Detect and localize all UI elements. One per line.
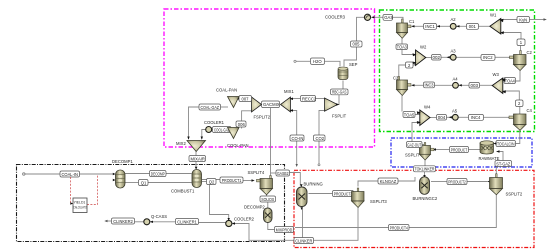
- wire Q-CASS to CLINKER2: [135, 221, 144, 223]
- svg-text:COOLER3: COOLER3: [325, 15, 346, 20]
- wire SSPLIT3 solids to CLINKER: [314, 208, 359, 241]
- hierarchy boundary: green cyclone preheater section: [380, 10, 535, 132]
- svg-text:COOL-PAN: COOL-PAN: [227, 143, 249, 148]
- wire DECOMP2 to MIXPROD: [268, 223, 275, 230]
- wire 004 to A5: [447, 116, 453, 118]
- stream label 001: [467, 24, 479, 30]
- svg-text:CO-IN: CO-IN: [292, 136, 304, 141]
- stream label INC2: [481, 55, 495, 61]
- reactor COMBUST1: [192, 167, 202, 188]
- svg-text:SOLIDS: SOLIDS: [261, 197, 274, 202]
- cyclone SSPLIT3: [352, 188, 365, 208]
- wire Q2 to COOLER2: [210, 185, 229, 220]
- feed port: [23, 173, 25, 175]
- stream label MIXPROD: [275, 227, 294, 233]
- cyclone SSPLIT calciner: [420, 143, 437, 161]
- svg-text:SSPLIT2: SSPLIT2: [506, 192, 523, 197]
- wire TOCALCIN to RAWMATE: [495, 143, 496, 145]
- svg-text:H2O: H2O: [313, 59, 322, 64]
- stream label KyN: [517, 17, 547, 23]
- svg-text:KyN: KyN: [519, 17, 527, 22]
- wire COAL-GAZ to MIX2: [189, 107, 200, 139]
- hopper COOL-PAN: [228, 128, 240, 139]
- wire 006 to COOL-PAN: [241, 127, 243, 129]
- svg-text:PRODUCT2: PRODUCT2: [448, 179, 466, 184]
- wire KLNGAZ to BURNING2: [398, 177, 415, 181]
- heater Q-CASS: [144, 219, 153, 225]
- compressor W4: [417, 110, 430, 126]
- svg-text:Q-CASS: Q-CASS: [151, 214, 167, 219]
- wire GASB2 to BURNING: [290, 173, 301, 186]
- svg-text:COOLER2: COOLER2: [234, 217, 255, 222]
- wire PRODUCT to SSPLIT cyclone: [435, 149, 450, 151]
- svg-text:INC2: INC2: [483, 55, 493, 60]
- wire W4 to 004: [430, 117, 437, 119]
- wire 001 to A2: [456, 25, 467, 27]
- svg-text:003: 003: [471, 83, 479, 88]
- wire funnel COAL-PAN to COAL-GAZ: [221, 106, 229, 108]
- svg-text:002: 002: [433, 55, 441, 60]
- svg-text:W2: W2: [420, 45, 427, 50]
- stream label 006: [236, 121, 246, 127]
- wire CO-IN to MIX1: [290, 111, 297, 136]
- stream label CLINKER2: [104, 218, 134, 224]
- svg-text:Q2: Q2: [209, 179, 215, 184]
- stream label 1: [517, 39, 525, 46]
- wire BURNING2 to PRODUCT2: [431, 181, 447, 183]
- stream label TOCALCIN: [496, 141, 516, 147]
- svg-text:MIX2: MIX2: [176, 141, 186, 146]
- wire SSPLIT2 solids to PRODUCT4: [405, 195, 497, 228]
- svg-text:BURNING: BURNING: [304, 182, 323, 187]
- svg-text:DECOMP1: DECOMP1: [112, 159, 133, 164]
- svg-text:GAS: GAS: [384, 15, 393, 20]
- wire RECC2 to MIX1: [292, 98, 301, 100]
- svg-text:CLINKER1: CLINKER1: [177, 219, 197, 224]
- wire W1 to 001: [479, 25, 490, 27]
- svg-text:ST-GAZ: ST-GAZ: [496, 161, 510, 166]
- cyclone C1: [397, 19, 415, 38]
- svg-text:004: 004: [438, 115, 446, 120]
- compressor W3: [492, 78, 506, 94]
- cyclone SSPLIT4: [257, 176, 273, 195]
- wire MIXAIR to COMBUST1: [195, 162, 197, 169]
- wire CO2 outlet: [318, 141, 320, 164]
- wire C2 to TOA4: [516, 70, 521, 81]
- svg-text:C4: C4: [527, 108, 533, 113]
- wire COMBUST1 to Q2: [202, 181, 207, 183]
- stream label MIXAIR: [189, 156, 206, 162]
- hierarchy boundary: magenta preheat/coal section: [164, 9, 375, 147]
- stream label SOLIDS: [260, 196, 276, 202]
- stream label GASB2: [276, 170, 290, 176]
- wire KyN outlet: [530, 19, 545, 21]
- wire H2O to SEP: [325, 61, 341, 66]
- stream label PRODUCT: [450, 147, 469, 153]
- svg-text:MIX1: MIX1: [284, 89, 294, 94]
- reactor DECOMP1: [113, 170, 125, 188]
- svg-text:TOKLINKER: TOKLINKER: [415, 167, 435, 172]
- stream label TOKLINKR: [414, 166, 436, 178]
- stream label TOA4: [504, 78, 516, 84]
- wire 005 to SEP: [344, 47, 357, 67]
- svg-text:COAL-GAZ: COAL-GAZ: [201, 105, 220, 110]
- wire FSPLIT2 to 006: [242, 111, 252, 121]
- svg-text:INC4: INC4: [471, 115, 481, 120]
- svg-text:W3: W3: [493, 72, 500, 77]
- svg-text:GASB2: GASB2: [277, 171, 289, 176]
- stream label INC3: [424, 82, 435, 88]
- svg-text:TOA3: TOA3: [397, 45, 408, 50]
- svg-text:INC3: INC3: [425, 83, 435, 88]
- hierarchy boundary: blue calciner section: [391, 138, 532, 167]
- svg-text:DECOMP2: DECOMP2: [244, 205, 265, 210]
- svg-text:CLINKER2: CLINKER2: [113, 219, 133, 224]
- wire cyclone to GAZ-OUT: [422, 145, 425, 146]
- wire 1 to W1: [503, 33, 522, 40]
- svg-text:TOA5: TOA5: [404, 112, 415, 117]
- stream label 003: [469, 83, 480, 89]
- wire A2 to INC1: [437, 25, 451, 27]
- svg-text:DECOMP: DECOMP: [151, 171, 165, 176]
- svg-text:SSPLIT3: SSPLIT3: [370, 199, 387, 204]
- heater A5: [449, 114, 458, 120]
- svg-text:INC1: INC1: [425, 24, 435, 29]
- stream label KLNGAZ: [378, 178, 398, 184]
- wire BURNING to PRODUCT3: [309, 193, 333, 195]
- wire FSPLIT to CO2: [319, 111, 325, 136]
- wire PRODUCT1 to SSPLIT4: [243, 180, 253, 182]
- stream label 004: [437, 115, 447, 121]
- wire C2 to 1: [520, 46, 522, 55]
- mixer block GACMIX: [262, 101, 280, 108]
- wire PRODUCT2 to SSPLIT2: [467, 181, 488, 183]
- wire 003 to A4: [458, 84, 469, 86]
- heater A3: [447, 54, 457, 60]
- calculator YIELD1: [70, 175, 97, 213]
- svg-text:YIELD1: YIELD1: [74, 201, 86, 205]
- wire SEP to RBC-GAS: [342, 81, 344, 90]
- heater COOLER2: [226, 218, 235, 227]
- flash drum SEP: [338, 67, 348, 80]
- wire COMBUST1 to PRODUCT1: [202, 179, 220, 181]
- stream label RECC2: [301, 96, 317, 102]
- svg-text:KLNGAZ: KLNGAZ: [380, 179, 397, 184]
- wire BURNING bottom to CLINKER: [302, 209, 304, 238]
- svg-text:COAL-IN: COAL-IN: [62, 172, 79, 177]
- reactor DECOMP2: [264, 208, 273, 223]
- wire COOLER1 to MIX2: [202, 130, 206, 140]
- splitter FSPLIT2: [252, 97, 262, 112]
- mixer hopper MIX2: [187, 137, 206, 152]
- svg-text:COMBUST1: COMBUST1: [171, 189, 195, 194]
- wire INC4 to C4: [484, 116, 510, 118]
- wire C1 to TOA3: [401, 38, 403, 44]
- wire H2O inlet: [296, 60, 311, 62]
- stream label GAZ-OUT: [407, 142, 423, 148]
- stream label INC4: [469, 115, 484, 121]
- heater A2: [437, 23, 460, 29]
- svg-text:SEP: SEP: [349, 62, 358, 67]
- svg-text:COOLER1: COOLER1: [204, 120, 225, 125]
- wire COOLER2 to CLINKER1: [199, 222, 226, 224]
- wire SSPLIT3 gas to KLNGAZ: [358, 181, 378, 187]
- stream label 2: [406, 62, 414, 68]
- svg-text:001: 001: [469, 24, 477, 29]
- wire TOA3 to W2: [402, 50, 415, 55]
- wire 2 to C4 top: [519, 107, 521, 115]
- cyclone C4: [508, 114, 526, 130]
- stream label CO2: [314, 135, 326, 166]
- svg-text:A4: A4: [453, 77, 459, 82]
- wire A3 to INC2: [456, 56, 481, 58]
- svg-text:SSPLIT4: SSPLIT4: [248, 170, 265, 175]
- stream label DECOMP: [150, 171, 167, 177]
- svg-text:SSPLIT: SSPLIT: [405, 153, 420, 158]
- svg-text:006: 006: [238, 122, 246, 127]
- stream label PRODUCT1: [220, 177, 255, 183]
- splitter FSPLIT: [325, 98, 340, 111]
- stream label PRODUCT2: [447, 179, 467, 185]
- wire TOA4 to W3: [503, 80, 506, 82]
- wire C4 to 2: [503, 91, 519, 100]
- stream label H2O: [294, 58, 325, 64]
- svg-text:CLINKER: CLINKER: [295, 238, 312, 243]
- svg-text:005: 005: [353, 42, 361, 47]
- wire MIX2 to MIXAIR: [195, 152, 197, 156]
- wire C3 to TOA5: [401, 96, 403, 112]
- svg-text:RECC2: RECC2: [302, 96, 317, 101]
- svg-text:GAZ-OUT: GAZ-OUT: [407, 142, 421, 147]
- stream label CLINKER1: [176, 219, 199, 225]
- cyclone C2: [509, 51, 527, 71]
- wire CLINKER2 outlet: [107, 220, 112, 222]
- svg-text:A3: A3: [451, 49, 457, 54]
- svg-text:C1: C1: [409, 19, 415, 24]
- wire INC1 to C1: [412, 25, 424, 27]
- stream label CLINKER: [294, 238, 314, 244]
- svg-text:FSPLIT: FSPLIT: [332, 114, 347, 119]
- stream label COAL-IN: [60, 171, 80, 177]
- svg-text:W4: W4: [424, 105, 431, 110]
- compressor W2: [413, 50, 426, 66]
- wire SSPLIT4 gas to GACMIX: [270, 108, 272, 178]
- wire RBC-GAS to FSPLIT: [338, 95, 341, 105]
- wire DECOMP to COMBUST1: [166, 173, 192, 175]
- wire TOA5 to W4: [409, 113, 420, 118]
- cyclone C3: [397, 77, 415, 96]
- wire W2 to 002: [426, 57, 432, 59]
- wire COAL-IN to DECOMP1: [80, 173, 115, 175]
- stream label COAL-GAZ: [199, 104, 221, 110]
- wire cyclone to TOKLINKR: [424, 160, 426, 166]
- svg-text:Q1: Q1: [141, 180, 147, 185]
- svg-text:PRODUCT: PRODUCT: [451, 147, 468, 152]
- wire ST-GAZ to RAWMATE: [497, 152, 504, 161]
- wire PRODUCT3 to SSPLIT3: [350, 193, 353, 195]
- svg-text:RBC-GAS: RBC-GAS: [332, 90, 347, 95]
- stream label 005: [351, 41, 363, 47]
- wire feed to COAL-IN: [25, 173, 60, 175]
- stream label GAS: [383, 15, 393, 21]
- cyclone SSPLIT2: [487, 174, 502, 195]
- stream label PRODUCT3: [333, 191, 356, 197]
- reactor BURNING kiln: [297, 184, 308, 210]
- svg-text:MIXAIR: MIXAIR: [191, 156, 205, 161]
- stream label COOL-GAZ: [213, 127, 232, 133]
- wire C1 gas to GAS label: [393, 17, 404, 22]
- mixer MIX1: [281, 97, 294, 112]
- compressor W1: [490, 19, 504, 35]
- wire DECOMP1 to Q1: [125, 182, 139, 184]
- stream label TOA3: [396, 44, 408, 50]
- svg-text:TOCALCIN: TOCALCIN: [497, 141, 515, 146]
- wire PRODUCT4 to MIXPROD: [295, 227, 389, 229]
- wire GAZ-OUT to W4: [412, 123, 419, 142]
- svg-text:COAL-PAN: COAL-PAN: [216, 88, 237, 93]
- stream label TOA5: [403, 112, 415, 118]
- stream label 002: [432, 55, 442, 61]
- svg-text:W1: W1: [490, 13, 497, 18]
- wire TOKLINKR to BURNING2: [424, 172, 426, 176]
- wire W3 to 003: [480, 84, 493, 86]
- svg-text:BURNINGC2: BURNINGC2: [413, 196, 438, 201]
- wire C3 to 2: [399, 65, 406, 80]
- svg-text:A2: A2: [451, 17, 457, 22]
- hierarchy boundary: red kiln section: [294, 170, 534, 247]
- svg-text:007: 007: [242, 96, 250, 101]
- stream label ST-GAZ: [495, 161, 512, 167]
- stream label INC1: [424, 24, 437, 30]
- reactor RAWMATE: [480, 141, 500, 154]
- heater COOLER1: [206, 127, 215, 133]
- wire C4 to TOCALCIN: [516, 130, 520, 144]
- wire FSPLIT to RECC2: [316, 98, 325, 100]
- svg-text:PRODUCT4: PRODUCT4: [390, 225, 409, 230]
- stream label RBC-GAS: [331, 89, 349, 95]
- stream label 007: [236, 96, 252, 102]
- svg-text:FSPLIT2: FSPLIT2: [254, 115, 271, 120]
- heater COOLER3: [364, 14, 374, 20]
- svg-text:PRODUCT3: PRODUCT3: [334, 191, 353, 196]
- wire GAS to COOLER3: [373, 16, 384, 18]
- wire RAWMATE to PRODUCT: [465, 149, 481, 151]
- svg-text:CALCULATO: CALCULATO: [73, 206, 87, 210]
- wire DECOMP1 to DECOMP label: [125, 173, 150, 175]
- wire INC3 to C3: [412, 84, 424, 86]
- reactor BURNING2: [420, 177, 430, 195]
- stream label 2 lower: [516, 100, 524, 107]
- wire INC2 to C2: [495, 56, 510, 58]
- svg-text:PRODUCT1: PRODUCT1: [222, 178, 242, 183]
- stream label Q2: [207, 179, 217, 185]
- svg-text:C2: C2: [527, 50, 533, 55]
- wire A4 to INC3: [435, 84, 453, 86]
- wire 2 to W2: [413, 63, 415, 65]
- wire SSPLIT4 gas to GASB2: [271, 172, 277, 174]
- wire 002 to A3: [441, 56, 451, 58]
- wire A5 to INC4: [458, 116, 468, 118]
- stream label Q1: [139, 180, 149, 186]
- wire COOLER3 to 005: [357, 17, 365, 41]
- svg-text:CO2: CO2: [316, 136, 325, 141]
- wire SOLIDS to DECOMP2: [267, 202, 269, 208]
- hierarchy boundary: black combustion section: [17, 165, 285, 242]
- svg-text:A5: A5: [452, 109, 458, 114]
- stream label PRODUCT4: [389, 225, 410, 231]
- wire CO-IN inlet: [296, 141, 298, 166]
- wire CLINKER to COOLER2: [235, 224, 295, 241]
- svg-text:GACMIX: GACMIX: [263, 102, 280, 107]
- svg-text:MIXPROD: MIXPROD: [276, 227, 293, 232]
- svg-text:TOA4: TOA4: [505, 78, 516, 83]
- wire KyN to W1: [501, 20, 517, 21]
- stream label CO-IN: [290, 135, 304, 167]
- wire SSPLIT4 solids to SOLIDS: [266, 195, 268, 197]
- wire Q1 to COMBUST1: [148, 182, 192, 184]
- wire CLINKER1 to Q-CASS: [151, 221, 176, 223]
- hopper COAL-PAN: [228, 97, 240, 108]
- wire SSPLIT2 to ST-GAZ: [495, 167, 497, 178]
- heater A4: [453, 82, 462, 88]
